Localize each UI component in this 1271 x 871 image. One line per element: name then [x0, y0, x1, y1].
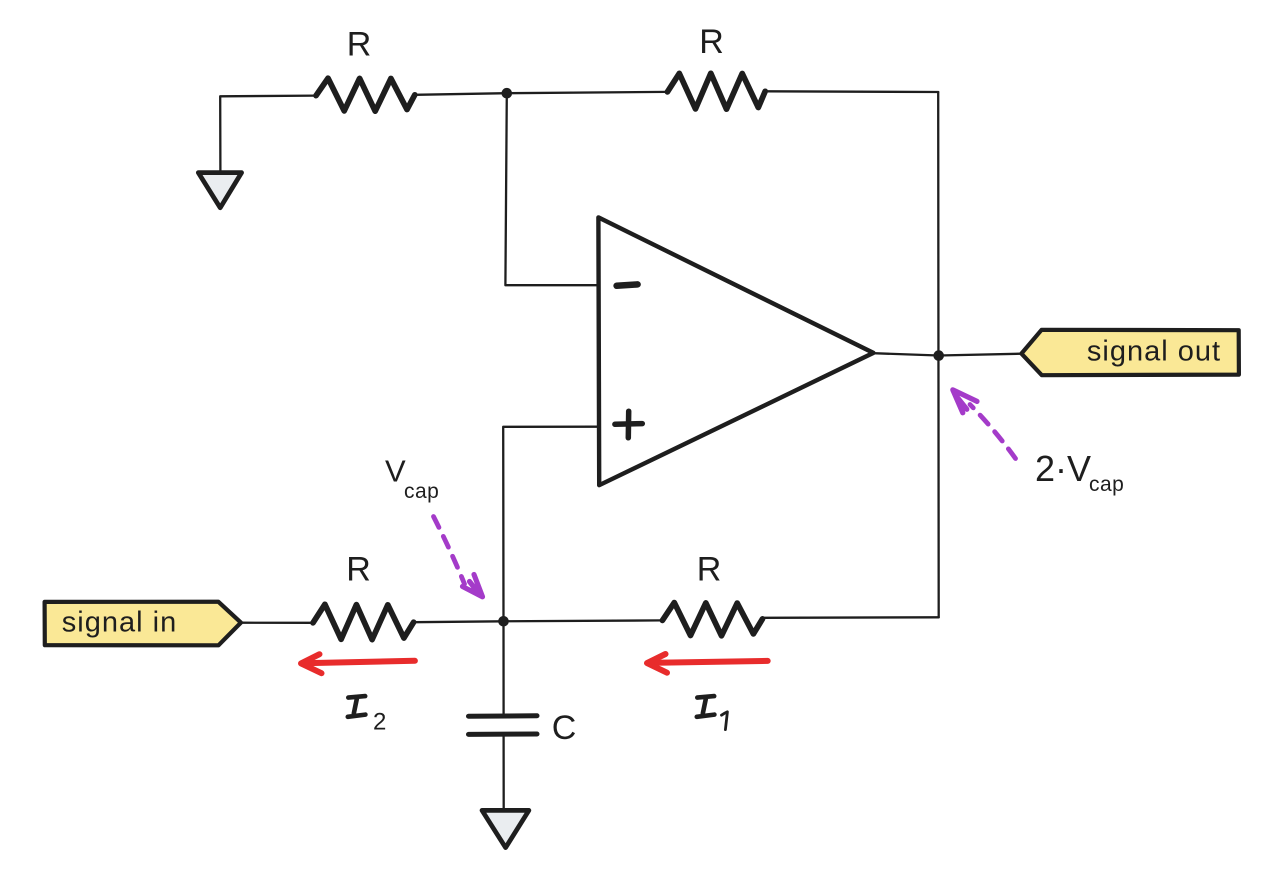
op-amp U1: [598, 217, 873, 485]
svg-text:R: R: [346, 551, 371, 589]
svg-text:R: R: [697, 550, 722, 588]
label 2·Vcap: [1035, 448, 1124, 496]
svg-text:V: V: [385, 454, 406, 489]
svg-text:signal in: signal in: [62, 607, 177, 639]
wire node A to inverting input: [505, 93, 597, 285]
resistor R3 (bottom-left): [313, 604, 414, 639]
wire node C to R4: [504, 619, 663, 622]
wire R3 to node C: [414, 620, 504, 623]
net flag signal out: [1021, 330, 1239, 375]
ground (below capacitor): [482, 810, 529, 847]
label I1: [697, 696, 728, 730]
capacitor C1: [469, 716, 538, 735]
wire ground1 to R1 (top-left): [220, 96, 316, 173]
annotation arrow to node B (2·Vcap): [953, 390, 1016, 459]
wire node B to signal-out flag: [939, 354, 1021, 356]
svg-text:2: 2: [373, 709, 386, 736]
svg-text:cap: cap: [404, 480, 439, 503]
svg-text:2·V: 2·V: [1035, 448, 1091, 489]
current arrow I2 (red): [301, 654, 415, 673]
svg-text:signal out: signal out: [1087, 336, 1221, 368]
current arrow I1 (red): [647, 654, 768, 673]
label I2: [348, 696, 387, 735]
wire bottom-right horizontal to R4: [763, 616, 939, 619]
wire node A to R2: [507, 92, 668, 93]
wire op-amp output to node B: [873, 353, 938, 355]
node A: [502, 88, 513, 99]
ground (top-left): [198, 173, 241, 208]
svg-text:C: C: [552, 709, 577, 747]
wire right vertical (output net): [937, 92, 940, 617]
resistor R2 (top-right): [667, 73, 765, 109]
svg-text:R: R: [347, 26, 372, 64]
wire non-inverting input to node C: [503, 427, 597, 622]
wire capacitor to ground2: [502, 736, 504, 811]
resistor R1 (top-left): [316, 78, 415, 111]
label Vcap: [385, 454, 439, 504]
net flag signal in: [45, 602, 241, 646]
wire signal-in flag to R3: [241, 622, 313, 624]
wire R1 to node A: [415, 93, 507, 95]
annotation arrow to node C (Vcap): [434, 517, 483, 597]
node B (output): [933, 350, 944, 361]
svg-text:cap: cap: [1089, 473, 1124, 496]
resistor R4 (bottom-right): [662, 603, 762, 636]
wire node C to capacitor: [502, 621, 504, 714]
node C: [498, 616, 509, 627]
wire R2 to right vertical corner: [765, 90, 938, 93]
svg-text:R: R: [699, 23, 724, 61]
